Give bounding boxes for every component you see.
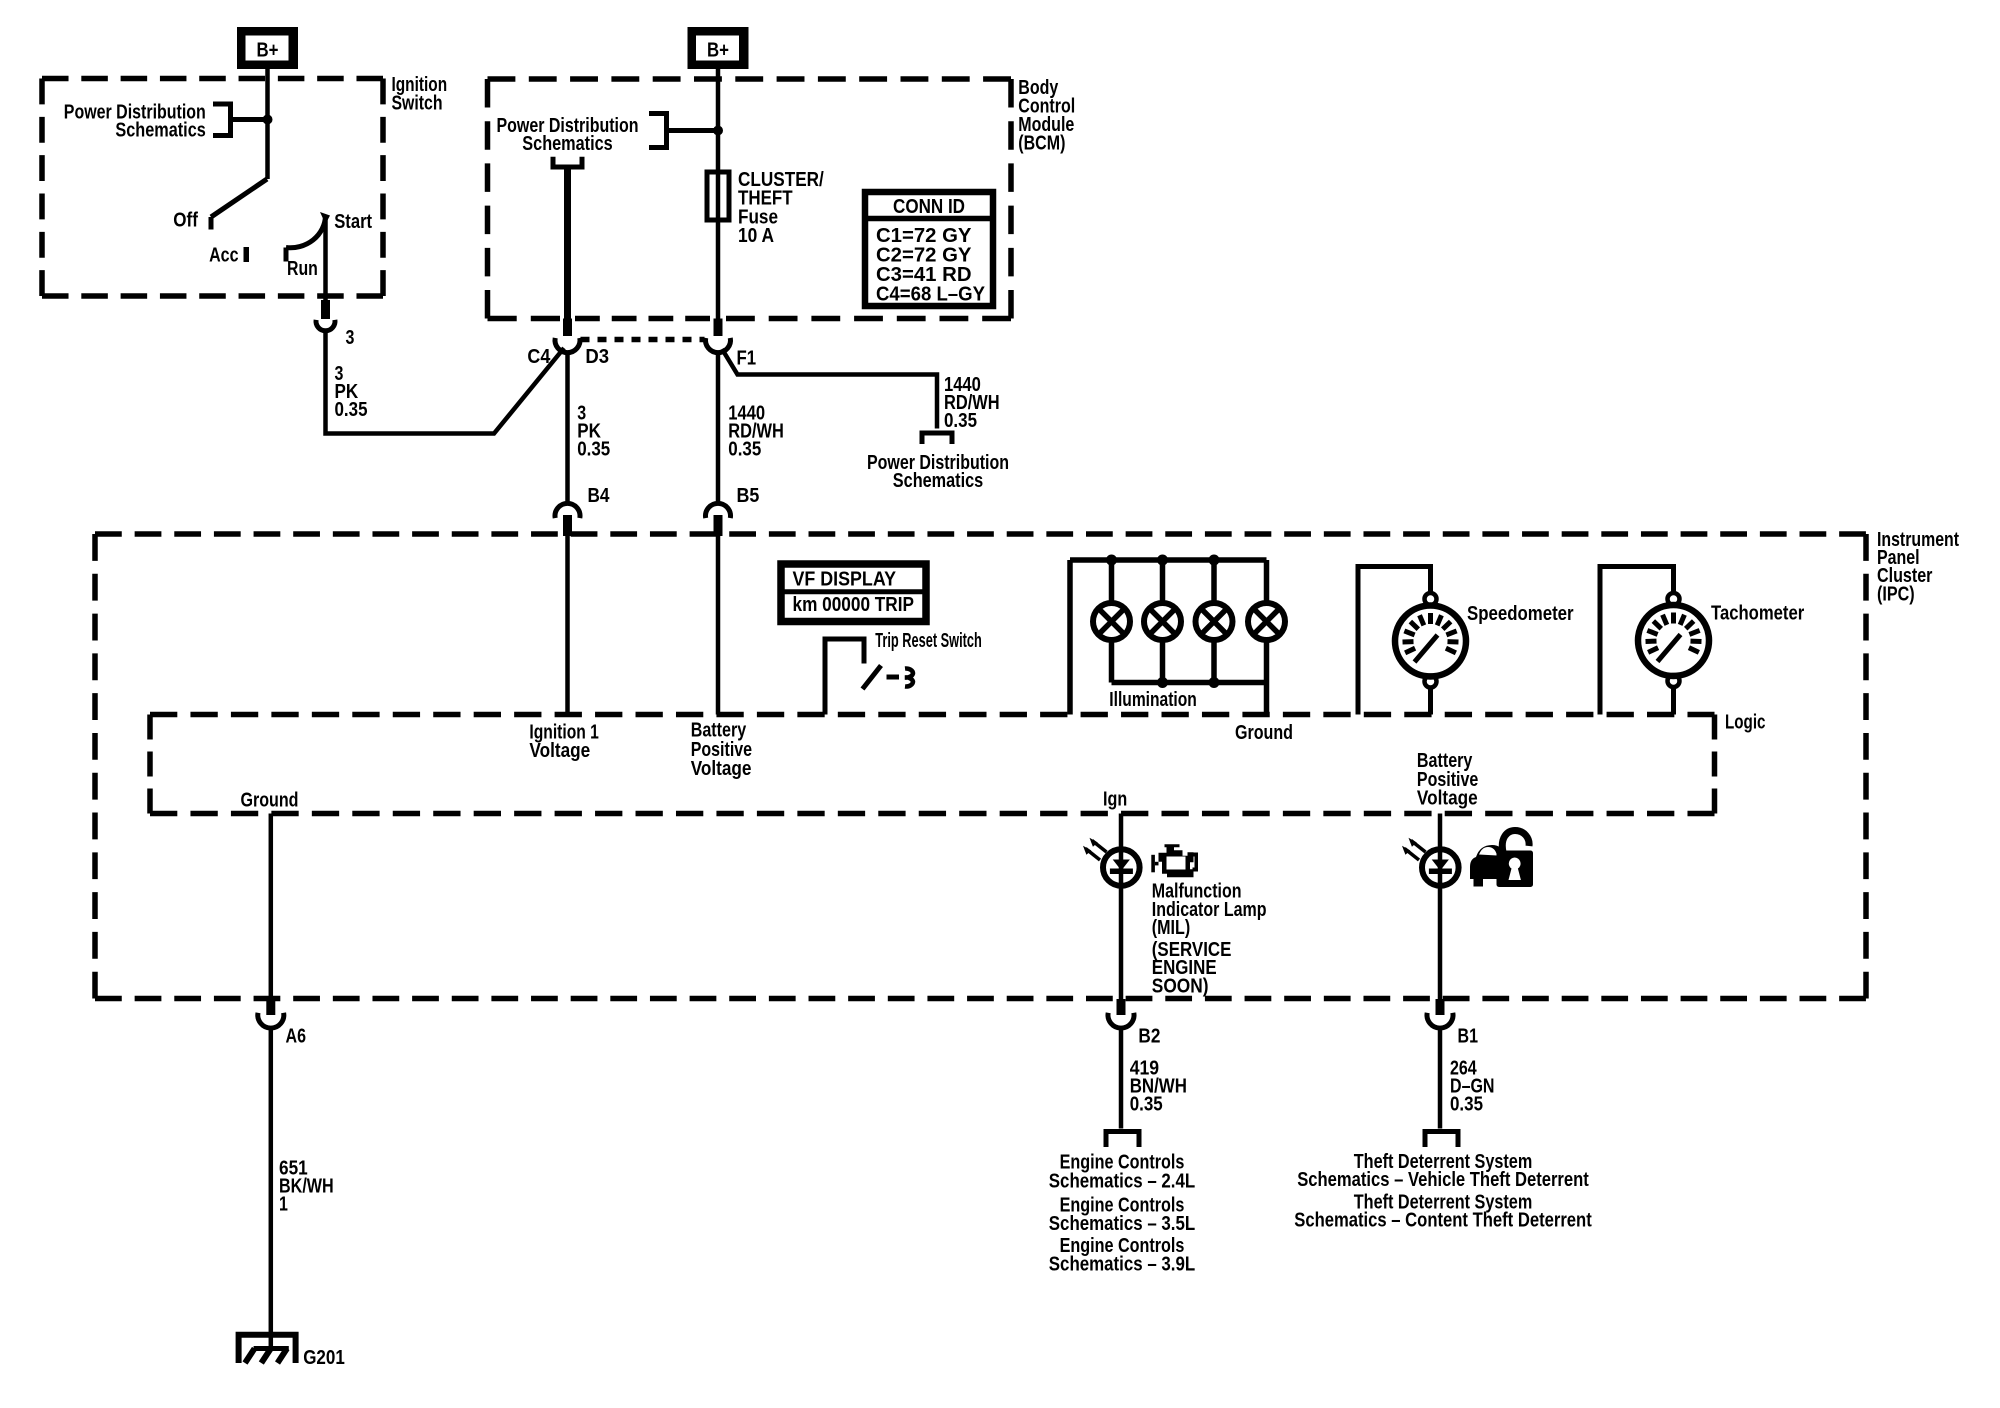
tachometer gauge <box>1600 567 1804 715</box>
MIL LED lamp <box>1083 838 1140 886</box>
wire B+ through BCM <box>716 69 721 319</box>
car with lock icon (theft deterrent) <box>1470 831 1533 888</box>
svg-text:Schematics – 2.4L: Schematics – 2.4L <box>1049 1170 1195 1192</box>
svg-text:(MIL): (MIL) <box>1152 917 1190 939</box>
connector F1 <box>706 319 757 370</box>
svg-text:F1: F1 <box>737 348 757 370</box>
bracket below schematics text + wire to C4 <box>553 157 582 319</box>
svg-text:Run: Run <box>287 258 318 280</box>
svg-text:Schematics: Schematics <box>893 470 983 492</box>
svg-text:Ground: Ground <box>1235 722 1293 744</box>
illumination lamp 2 <box>1144 560 1181 683</box>
svg-text:B4: B4 <box>588 485 611 507</box>
svg-text:C4=68 L–GY: C4=68 L–GY <box>876 283 986 305</box>
svg-text:Acc: Acc <box>209 245 238 267</box>
wire 264 D-GN 0.35 <box>1440 1029 1495 1129</box>
CONN ID table <box>865 192 993 306</box>
svg-text:Schematics: Schematics <box>115 119 205 141</box>
theft deterrent LED lamp <box>1402 838 1459 886</box>
svg-text:Logic: Logic <box>1725 711 1766 733</box>
trip reset switch <box>825 630 982 714</box>
svg-text:B+: B+ <box>707 40 729 62</box>
svg-text:0.35: 0.35 <box>335 399 368 421</box>
svg-text:Schematics – 3.5L: Schematics – 3.5L <box>1049 1213 1195 1235</box>
junction dot <box>263 115 273 125</box>
svg-text:(IPC): (IPC) <box>1877 583 1915 605</box>
theft deterrent lamp wire <box>1438 814 1443 1000</box>
svg-text:C4: C4 <box>527 346 551 368</box>
svg-text:Voltage: Voltage <box>691 758 752 780</box>
engine icon (MIL) <box>1151 844 1198 877</box>
IPC logic inner box <box>150 715 1715 814</box>
svg-text:Schematics: Schematics <box>522 133 612 155</box>
svg-text:G201: G201 <box>303 1347 345 1369</box>
svg-text:Tachometer: Tachometer <box>1711 603 1804 625</box>
svg-text:Illumination: Illumination <box>1109 689 1197 711</box>
connector C4/D3 (BCM to IPC harness) <box>527 319 609 369</box>
illumination lamp 1 <box>1093 560 1130 683</box>
off-page bracket (engine controls) <box>1106 1132 1139 1148</box>
wire 1440 RD/WH to power distribution (from F1) <box>722 349 1009 492</box>
svg-text:D3: D3 <box>585 346 609 368</box>
connector at ignition switch output, pin 3 <box>316 300 354 349</box>
svg-text:0.35: 0.35 <box>728 438 761 460</box>
wire 3 PK 0.35 from ignition to BCM C4 <box>326 331 565 434</box>
svg-text:Schematics – Content Theft Det: Schematics – Content Theft Deterrent <box>1294 1210 1592 1232</box>
svg-text:0.35: 0.35 <box>577 438 610 460</box>
MIL lamp wire <box>1119 814 1124 1000</box>
svg-text:Voltage: Voltage <box>529 740 590 762</box>
wire 1440 RD/WH 0.35 (F1 to B5) <box>718 353 784 504</box>
svg-text:3: 3 <box>346 327 355 349</box>
instrument panel cluster box <box>95 534 1866 999</box>
svg-text:0.35: 0.35 <box>1450 1094 1483 1116</box>
svg-text:Schematics – 3.9L: Schematics – 3.9L <box>1049 1254 1195 1276</box>
ground wire from logic box <box>269 814 274 1000</box>
svg-text:VF DISPLAY: VF DISPLAY <box>793 568 897 590</box>
svg-text:1: 1 <box>279 1193 288 1215</box>
connector B1 <box>1427 999 1478 1047</box>
pin label Ignition 1 Voltage <box>529 721 599 762</box>
VF DISPLAY box <box>781 564 926 622</box>
svg-text:Off: Off <box>173 210 198 232</box>
svg-text:10 A: 10 A <box>738 225 774 247</box>
svg-text:Trip Reset Switch: Trip Reset Switch <box>875 630 982 652</box>
svg-text:Ground: Ground <box>241 790 299 812</box>
body control module box <box>488 79 1012 319</box>
fuse CLUSTER/THEFT 10A <box>707 169 824 247</box>
connector A6 <box>258 999 306 1048</box>
pin label Battery Positive Voltage (top) <box>691 720 752 780</box>
wire B+ to ignition switch <box>265 69 270 179</box>
svg-text:B1: B1 <box>1458 1025 1479 1047</box>
svg-text:Switch: Switch <box>392 93 443 115</box>
svg-text:B5: B5 <box>737 485 760 507</box>
BCM label <box>1018 77 1075 154</box>
connector B5 into IPC <box>705 485 759 714</box>
svg-text:Start: Start <box>334 211 372 233</box>
svg-text:Speedometer: Speedometer <box>1467 603 1574 625</box>
wire 3 PK 0.35 (D3 to B4) <box>568 353 611 504</box>
MIL text <box>1152 881 1267 998</box>
svg-text:Voltage: Voltage <box>1417 787 1478 809</box>
bus junction dots <box>1106 555 1220 689</box>
svg-text:Schematics – Vehicle Theft Det: Schematics – Vehicle Theft Deterrent <box>1297 1169 1589 1191</box>
svg-text:0.35: 0.35 <box>1130 1094 1163 1116</box>
svg-text:CONN ID: CONN ID <box>893 196 965 218</box>
B+ power symbol (BCM feed) <box>688 27 749 69</box>
wire 419 BN/WH 0.35 <box>1121 1029 1187 1129</box>
svg-text:SOON): SOON) <box>1152 976 1209 998</box>
IPC label <box>1877 529 1959 606</box>
svg-text:A6: A6 <box>286 1026 307 1048</box>
ground G201 symbol <box>239 1335 345 1369</box>
theft deterrent schematics references <box>1294 1151 1592 1232</box>
dotted connector line D3-F1 <box>581 337 705 343</box>
ignition switch label <box>392 74 448 115</box>
power distribution schematics tap (ignition switch) <box>64 102 268 142</box>
wire 651 BK/WH 1 to G201 <box>271 1029 334 1349</box>
speedometer gauge <box>1358 567 1574 715</box>
illumination lamp 3 <box>1196 560 1233 683</box>
ignition switch box <box>42 79 383 297</box>
B+ power symbol (ignition switch feed) <box>237 27 298 69</box>
svg-text:B2: B2 <box>1138 1025 1160 1047</box>
engine controls schematics references <box>1049 1152 1195 1276</box>
power distribution schematics tap (BCM) <box>497 114 719 155</box>
connector B4 into IPC <box>555 485 610 714</box>
illumination lamp bus <box>1070 560 1267 715</box>
svg-text:km 00000 TRIP: km 00000 TRIP <box>793 594 915 616</box>
ignition switch contacts Off/Acc/Run/Start <box>173 179 372 302</box>
svg-text:0.35: 0.35 <box>944 410 977 432</box>
pin label Battery Positive Voltage (bottom) <box>1417 750 1478 809</box>
svg-text:Ign: Ign <box>1103 789 1127 811</box>
connector B2 <box>1108 999 1160 1047</box>
illumination lamp 4 <box>1248 560 1285 683</box>
svg-text:B+: B+ <box>257 40 279 62</box>
junction dot <box>713 126 723 136</box>
off-page bracket (theft deterrent) <box>1425 1132 1458 1148</box>
svg-text:(BCM): (BCM) <box>1018 132 1065 154</box>
